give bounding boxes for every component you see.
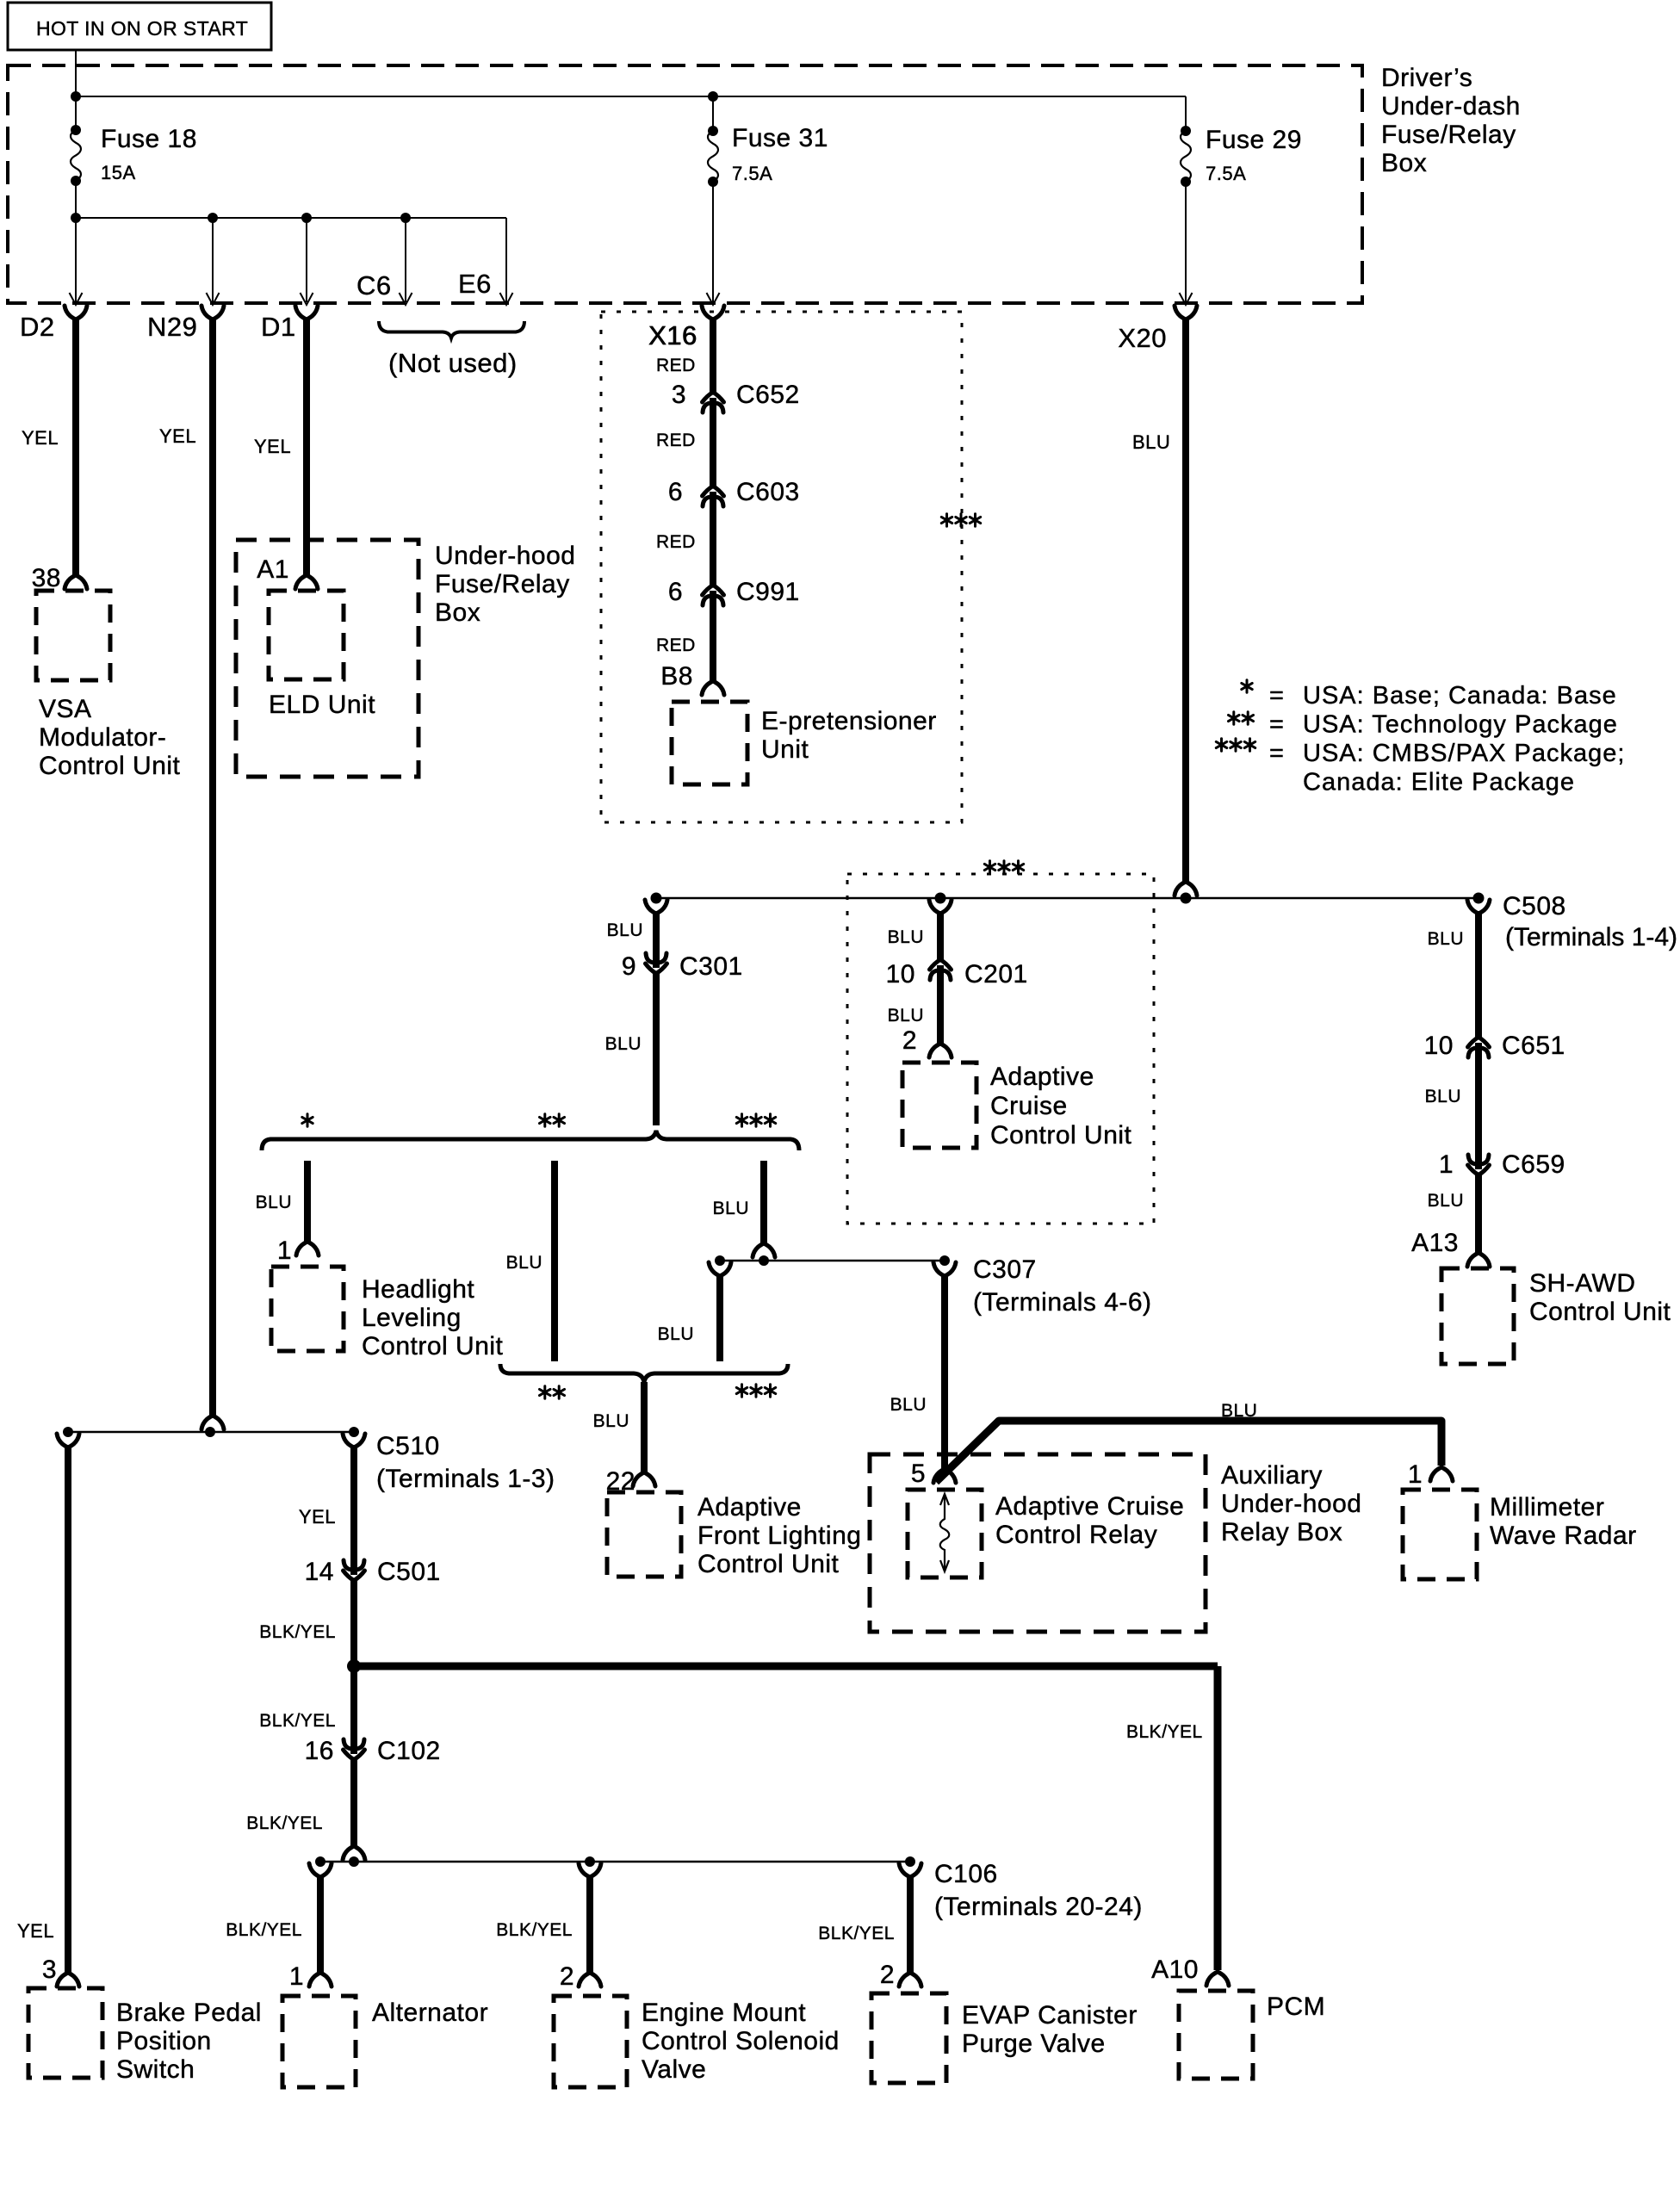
svg-text:38: 38 xyxy=(32,564,61,592)
svg-text:Purge Valve: Purge Valve xyxy=(962,2030,1106,2058)
svg-text:14: 14 xyxy=(305,1558,334,1586)
svg-text:3: 3 xyxy=(672,381,686,409)
svg-text:YEL: YEL xyxy=(17,1920,54,1942)
svg-text:PCM: PCM xyxy=(1267,1993,1325,2021)
svg-text:USA: CMBS/PAX Package;: USA: CMBS/PAX Package; xyxy=(1303,740,1625,767)
svg-text:(Terminals 1-4): (Terminals 1-4) xyxy=(1505,923,1677,951)
svg-text:Under-hood: Under-hood xyxy=(435,542,575,570)
svg-text:RED: RED xyxy=(656,356,696,375)
svg-text:Under-dash: Under-dash xyxy=(1381,92,1521,121)
svg-text:2: 2 xyxy=(880,1961,895,1989)
svg-text:E-pretensioner: E-pretensioner xyxy=(761,707,937,735)
svg-text:RED: RED xyxy=(656,431,696,450)
svg-text:2: 2 xyxy=(560,1962,574,1991)
svg-text:Control Unit: Control Unit xyxy=(362,1332,504,1360)
svg-text:Box: Box xyxy=(1381,149,1427,177)
svg-text:C301: C301 xyxy=(679,952,743,981)
svg-text:SH-AWD: SH-AWD xyxy=(1529,1269,1636,1298)
svg-text:BLK/YEL: BLK/YEL xyxy=(1126,1722,1203,1742)
svg-text:EVAP Canister: EVAP Canister xyxy=(962,2001,1138,2030)
svg-text:Adaptive: Adaptive xyxy=(990,1063,1094,1091)
svg-text:10: 10 xyxy=(1424,1032,1454,1060)
svg-text:Adaptive: Adaptive xyxy=(697,1493,802,1522)
svg-text:RED: RED xyxy=(656,635,696,655)
svg-text:Relay Box: Relay Box xyxy=(1221,1518,1342,1546)
svg-text:USA: Base; Canada: Base: USA: Base; Canada: Base xyxy=(1303,682,1617,710)
svg-text:=: = xyxy=(1269,682,1284,710)
svg-text:C603: C603 xyxy=(736,478,800,506)
svg-text:C510: C510 xyxy=(376,1432,440,1460)
svg-text:BLU: BLU xyxy=(1132,431,1170,453)
svg-text:Front Lighting: Front Lighting xyxy=(697,1522,861,1550)
svg-text:6: 6 xyxy=(668,578,683,606)
svg-text:BLU: BLU xyxy=(1428,1191,1464,1211)
svg-text:Unit: Unit xyxy=(761,735,809,764)
svg-text:9: 9 xyxy=(622,952,636,981)
svg-text:BLK/YEL: BLK/YEL xyxy=(818,1924,895,1943)
svg-text:Leveling: Leveling xyxy=(362,1304,462,1332)
svg-text:YEL: YEL xyxy=(159,425,196,447)
svg-text:BLU: BLU xyxy=(1221,1401,1257,1421)
svg-text:Fuse 18: Fuse 18 xyxy=(101,125,197,153)
svg-text:BLU: BLU xyxy=(256,1193,292,1212)
svg-text:1: 1 xyxy=(289,1962,304,1991)
svg-text:B8: B8 xyxy=(660,662,693,691)
svg-text:(Terminals 1-3): (Terminals 1-3) xyxy=(376,1465,555,1493)
svg-text:BLU: BLU xyxy=(506,1253,542,1273)
svg-text:BLU: BLU xyxy=(888,927,924,947)
svg-text:BLK/YEL: BLK/YEL xyxy=(246,1813,323,1833)
svg-text:A1: A1 xyxy=(257,555,289,584)
svg-text:X16: X16 xyxy=(648,320,697,350)
svg-text:Millimeter: Millimeter xyxy=(1490,1493,1604,1522)
svg-text:Control Unit: Control Unit xyxy=(990,1121,1132,1150)
svg-text:BLU: BLU xyxy=(1425,1087,1461,1106)
svg-text:7.5A: 7.5A xyxy=(732,163,772,184)
svg-text:7.5A: 7.5A xyxy=(1206,163,1246,184)
svg-text:C6: C6 xyxy=(356,270,392,301)
svg-text:15A: 15A xyxy=(101,162,136,183)
svg-text:Valve: Valve xyxy=(642,2055,706,2084)
svg-text:BLK/YEL: BLK/YEL xyxy=(259,1622,336,1642)
svg-text:N29: N29 xyxy=(147,312,197,342)
svg-text:BLU: BLU xyxy=(607,920,643,940)
svg-text:D1: D1 xyxy=(261,312,296,342)
svg-text:USA: Technology Package: USA: Technology Package xyxy=(1303,711,1618,739)
svg-text:Control Unit: Control Unit xyxy=(697,1550,840,1578)
svg-text:C991: C991 xyxy=(736,578,800,606)
svg-text:(Terminals 4-6): (Terminals 4-6) xyxy=(973,1288,1152,1317)
svg-text:YEL: YEL xyxy=(22,427,59,449)
svg-text:3: 3 xyxy=(42,1955,57,1984)
svg-text:Wave Radar: Wave Radar xyxy=(1490,1522,1637,1550)
svg-text:(Not used): (Not used) xyxy=(388,348,518,378)
svg-text:5: 5 xyxy=(911,1460,926,1488)
svg-text:Fuse/Relay: Fuse/Relay xyxy=(1381,121,1516,149)
svg-text:YEL: YEL xyxy=(299,1506,336,1528)
svg-text:Driver’s: Driver’s xyxy=(1381,64,1472,92)
svg-text:BLU: BLU xyxy=(713,1199,749,1218)
svg-text:RED: RED xyxy=(656,532,696,552)
svg-text:6: 6 xyxy=(668,478,683,506)
svg-text:C307: C307 xyxy=(973,1255,1037,1284)
svg-text:Box: Box xyxy=(435,598,480,627)
svg-text:A13: A13 xyxy=(1411,1229,1459,1257)
svg-text:BLU: BLU xyxy=(890,1395,927,1415)
svg-text:=: = xyxy=(1269,740,1284,767)
svg-text:BLU: BLU xyxy=(593,1411,629,1431)
svg-text:YEL: YEL xyxy=(254,436,291,457)
svg-text:HOT IN ON OR START: HOT IN ON OR START xyxy=(36,17,248,40)
svg-text:C508: C508 xyxy=(1503,892,1566,920)
svg-text:Alternator: Alternator xyxy=(372,1999,488,2027)
svg-text:Under-hood: Under-hood xyxy=(1221,1490,1361,1518)
svg-text:Adaptive Cruise: Adaptive Cruise xyxy=(995,1492,1184,1521)
svg-text:X20: X20 xyxy=(1118,323,1167,353)
svg-text:C651: C651 xyxy=(1502,1032,1565,1060)
svg-text:BLU: BLU xyxy=(658,1324,694,1344)
svg-text:1: 1 xyxy=(277,1236,292,1265)
svg-text:D2: D2 xyxy=(20,312,55,342)
svg-text:(Terminals 20-24): (Terminals 20-24) xyxy=(934,1893,1143,1921)
svg-text:Modulator-: Modulator- xyxy=(39,723,166,752)
svg-text:Fuse/Relay: Fuse/Relay xyxy=(435,570,570,598)
svg-text:=: = xyxy=(1269,711,1284,739)
svg-text:BLU: BLU xyxy=(1428,929,1464,949)
svg-text:C106: C106 xyxy=(934,1860,998,1888)
svg-text:Control Unit: Control Unit xyxy=(39,752,181,780)
svg-text:C501: C501 xyxy=(377,1558,441,1586)
svg-text:BLK/YEL: BLK/YEL xyxy=(226,1920,302,1940)
svg-text:Headlight: Headlight xyxy=(362,1275,474,1304)
svg-text:Auxiliary: Auxiliary xyxy=(1221,1461,1323,1490)
svg-text:Brake Pedal: Brake Pedal xyxy=(116,1999,262,2027)
svg-text:1: 1 xyxy=(1439,1150,1454,1179)
svg-text:BLU: BLU xyxy=(605,1034,642,1054)
svg-text:C652: C652 xyxy=(736,381,800,409)
svg-text:Control Relay: Control Relay xyxy=(995,1521,1157,1549)
svg-text:Control Unit: Control Unit xyxy=(1529,1298,1671,1326)
svg-text:A10: A10 xyxy=(1151,1955,1199,1984)
svg-text:BLK/YEL: BLK/YEL xyxy=(259,1711,336,1731)
svg-text:Control Solenoid: Control Solenoid xyxy=(642,2027,840,2055)
svg-text:Position: Position xyxy=(116,2027,212,2055)
svg-text:C659: C659 xyxy=(1502,1150,1565,1179)
svg-text:C201: C201 xyxy=(964,960,1028,989)
svg-text:Canada: Elite Package: Canada: Elite Package xyxy=(1303,769,1575,796)
svg-text:VSA: VSA xyxy=(39,695,92,723)
svg-text:BLU: BLU xyxy=(888,1006,924,1026)
svg-text:2: 2 xyxy=(902,1026,917,1055)
svg-text:ELD Unit: ELD Unit xyxy=(269,691,375,719)
svg-text:Fuse 31: Fuse 31 xyxy=(732,124,828,152)
svg-text:E6: E6 xyxy=(458,269,492,299)
svg-text:BLK/YEL: BLK/YEL xyxy=(496,1920,573,1940)
svg-text:Fuse 29: Fuse 29 xyxy=(1206,126,1302,154)
svg-text:1: 1 xyxy=(1408,1460,1423,1489)
svg-text:Switch: Switch xyxy=(116,2055,195,2084)
svg-text:10: 10 xyxy=(886,960,915,989)
svg-text:Cruise: Cruise xyxy=(990,1092,1068,1120)
svg-text:C102: C102 xyxy=(377,1737,441,1765)
svg-text:16: 16 xyxy=(305,1737,334,1765)
svg-text:Engine Mount: Engine Mount xyxy=(642,1999,806,2027)
